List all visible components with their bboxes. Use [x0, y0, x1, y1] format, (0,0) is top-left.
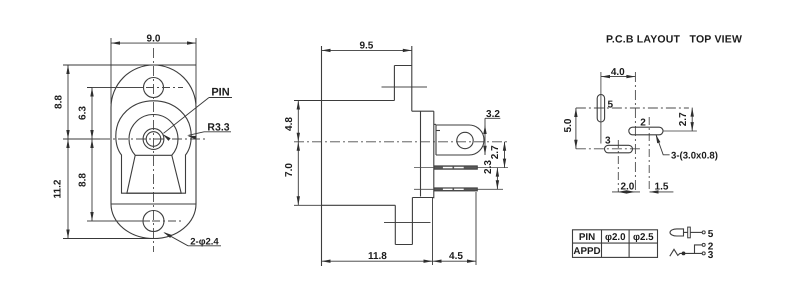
node I: body left edge with extension [321, 46, 323, 266]
wire: side view top hole center mark [382, 86, 428, 88]
node S: bottom leg left [394, 205, 396, 244]
dim 9.0 extension lines [110, 38, 112, 104]
svg-text:1.5: 1.5 [655, 181, 669, 192]
node T3: pin 3 terminal circle [702, 252, 705, 255]
dim 8.8 lower [91, 139, 93, 221]
wire: side view bottom hole center mark [384, 222, 431, 224]
node T5: pin 5 terminal circle [702, 231, 705, 234]
node C: bottom mounting hole [143, 211, 164, 232]
dim 8.8 upper extension at flange top [63, 64, 196, 66]
svg-text:2.7: 2.7 [678, 112, 689, 126]
svg-text:7.0: 7.0 [284, 163, 295, 177]
svg-text:2: 2 [640, 118, 646, 129]
svg-text:5: 5 [708, 229, 714, 240]
node TBL: pin table frame [573, 230, 658, 258]
node T: bottom leg bottom [395, 244, 412, 246]
node SW: switch contact zigzag [670, 249, 702, 256]
dim 5.0 [575, 108, 577, 149]
wire: layout centerline pad5 row [576, 107, 689, 109]
wire: bottom hole centerline [87, 220, 150, 222]
wire: plug stem [684, 231, 688, 233]
dim 2.0 [612, 191, 640, 193]
svg-text:4.8: 4.8 [284, 117, 295, 131]
svg-text:9.5: 9.5 [359, 40, 373, 51]
node W3: lug left step horizontal lower [436, 130, 440, 132]
node Y: terminal pin 1 (hatched) [434, 166, 477, 169]
wire: plug lead to pin 5 [690, 231, 702, 233]
svg-text:P.C.B LAYOUT TOP VIEW: P.C.B LAYOUT TOP VIEW [606, 34, 742, 46]
node Z: terminal pin 2 (hatched) [434, 188, 477, 191]
svg-text:3: 3 [605, 135, 611, 146]
node P3: pad 3 slot [605, 145, 633, 153]
wire: terminal 2 centerline [414, 188, 434, 190]
wire: table column line 2 [628, 230, 630, 258]
node B: top mounting hole [144, 78, 164, 98]
node U: bottom leg right [411, 198, 413, 245]
node K: body bottom edge [322, 204, 396, 206]
svg-text:PIN: PIN [579, 232, 595, 243]
dim 6.3 extension at hole center [87, 87, 92, 89]
dim 2.7 side [504, 142, 506, 168]
node SYM5: plug barrel symbol [670, 229, 684, 236]
svg-text:11.2: 11.2 [53, 179, 64, 198]
svg-text:2.3: 2.3 [483, 160, 494, 174]
node P2: pad 2 slot [629, 127, 663, 135]
svg-text:PIN: PIN [211, 87, 229, 99]
dim 11.8 and 4.5 extension lines [432, 197, 434, 265]
wire: pad2 vertical centerline [648, 117, 650, 192]
node D: recess arch outline [116, 101, 191, 193]
dim 2.3 side [496, 168, 498, 190]
node W: lug left small step [435, 125, 437, 155]
node Q: plate right line [433, 111, 435, 198]
svg-text:3-(3.0x0.8): 3-(3.0x0.8) [671, 151, 718, 162]
wire: front view horizontal centerline [100, 138, 208, 140]
node H: center pin inner circle [146, 132, 161, 147]
svg-text:3: 3 [708, 250, 714, 261]
svg-text:8.8: 8.8 [78, 173, 89, 187]
svg-text:4.0: 4.0 [611, 67, 625, 78]
wire: branch up to pin 2 [695, 245, 703, 254]
node P5: pad 5 slot [597, 95, 604, 123]
dim 11.2 [67, 139, 69, 239]
node R: plate bottom connect [412, 197, 433, 199]
node SWdot: switch contact dot [682, 252, 685, 255]
dim 6.3 [91, 88, 93, 140]
dim 9.5 [322, 49, 412, 51]
dim 4.0 [601, 76, 635, 78]
dim 7.0 extension bottom [294, 204, 322, 206]
svg-text:5.0: 5.0 [563, 118, 574, 132]
wire: top hole centerline [87, 87, 144, 89]
wire: pad5 vertical centerline [600, 72, 602, 144]
dim 4.5 [433, 260, 477, 262]
node T2: pin 2 terminal circle [702, 243, 705, 246]
svg-text:2.0: 2.0 [620, 181, 634, 192]
wire: layout centerline pad3 row [576, 148, 640, 150]
node M: top tab top edge [394, 65, 411, 67]
node V: lug outline [436, 125, 484, 155]
wire: 2.7 layout extension [663, 130, 697, 132]
svg-text:8.8: 8.8 [54, 95, 65, 109]
node G: center pin outer circle [143, 129, 164, 150]
dim 4.8 [297, 101, 299, 142]
wire: flange chord line [111, 203, 196, 205]
wire: terminal 1 centerline [414, 167, 434, 169]
wire: layout main vertical centerline [634, 72, 636, 192]
node E: inner arc R3.3 region [129, 115, 178, 156]
svg-text:11.8: 11.8 [368, 251, 387, 262]
dim 1.5 [650, 191, 674, 193]
svg-text:6.3: 6.3 [78, 106, 89, 120]
wire: side view horizontal axis centerline [294, 141, 507, 143]
dim 3.2 [484, 118, 486, 155]
dim 8.8 upper [67, 65, 69, 139]
node A: flange outline (obround) [111, 65, 196, 239]
dim 11.2 extension mid [63, 138, 100, 140]
svg-text:4.5: 4.5 [449, 251, 463, 262]
label 3-(3.0x0.8) with leader [656, 135, 670, 155]
node W2: lug left step horizontal upper [434, 123, 436, 125]
svg-text:2.7: 2.7 [490, 145, 501, 159]
dim 11.2 extension at flange bottom [63, 238, 154, 240]
node SYM5b: plug flange bar [688, 227, 691, 238]
svg-text:9.0: 9.0 [147, 34, 161, 45]
node X: lug pin hole [457, 132, 473, 148]
svg-text:φ2.0: φ2.0 [605, 232, 626, 243]
dim 9.0 [111, 42, 196, 44]
node F: contact trapezoid [127, 155, 181, 193]
dim 4.8 extension top [294, 100, 322, 102]
dim 7.0 [297, 142, 299, 206]
node N: tab right edge with extension [411, 46, 413, 111]
svg-text:3.2: 3.2 [486, 109, 500, 120]
wire: pad3 vertical centerline [617, 140, 619, 192]
node L: top tab left edge [393, 66, 395, 101]
node P: plate left line [420, 111, 422, 196]
node O: step to plate [412, 110, 434, 112]
svg-text:φ2.5: φ2.5 [633, 232, 654, 243]
dim 11.8 [322, 260, 433, 262]
wire: table column line 1 [601, 230, 603, 258]
node J: body top edge [322, 100, 395, 102]
wire: table row line [573, 242, 658, 244]
dim 2.7 layout [691, 108, 693, 132]
svg-text:5: 5 [608, 100, 614, 111]
wire: front view vertical centerline [153, 48, 155, 252]
svg-text:APPD: APPD [573, 246, 600, 257]
